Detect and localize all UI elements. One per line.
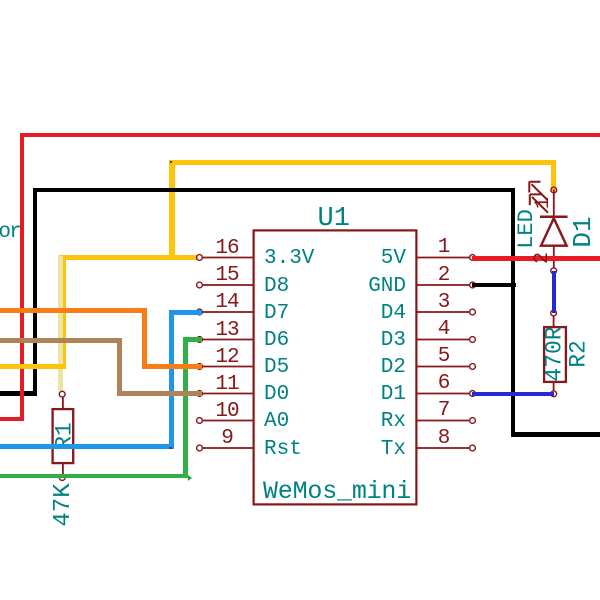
pin number 3 xyxy=(414,292,474,313)
pin name D2 xyxy=(336,357,406,378)
pin 14 circle xyxy=(197,309,203,315)
pin name Rx xyxy=(336,411,406,432)
wire blue D7 horizontal xyxy=(0,444,174,449)
label D1 rotated xyxy=(570,216,596,247)
label WeMos_mini xyxy=(263,479,411,504)
pin 12 stub xyxy=(201,366,254,368)
resistor R2 bottom pin xyxy=(553,382,555,391)
wire green D6 vertical xyxy=(183,337,188,478)
pin 13 stub xyxy=(201,339,254,341)
pin 5 circle xyxy=(470,364,476,370)
pin number 14 xyxy=(197,292,257,313)
resistor R2 box xyxy=(544,327,566,382)
LED D1 top pin circle xyxy=(551,187,557,193)
partial net label "or" xyxy=(0,222,20,243)
pin 4 stub xyxy=(418,339,472,341)
corner dot blue junction xyxy=(169,447,172,450)
wire GND black top horizontal xyxy=(33,188,514,192)
pin number 10 xyxy=(197,401,257,422)
pin 15 circle xyxy=(197,282,203,288)
wire brown D0 pin11 stub xyxy=(117,391,202,396)
wire orange D5 pin12 stub xyxy=(142,364,202,369)
pin 15 stub xyxy=(201,284,254,286)
wire 5V red left exit horizontal xyxy=(0,417,24,422)
pin 13 circle xyxy=(197,337,203,343)
wire pale yellow to R1 top xyxy=(58,256,63,391)
wire green D6 horizontal xyxy=(0,474,188,479)
pin number 9 xyxy=(197,428,257,449)
pin number 6 xyxy=(414,373,474,394)
pin 1 stub xyxy=(418,257,472,259)
pin number 1 xyxy=(414,237,474,258)
pin name A0 xyxy=(264,411,289,432)
wire GND pin2 stub black xyxy=(472,283,516,287)
op-amp U1 body box xyxy=(254,230,417,504)
pin name D6 xyxy=(264,330,289,351)
wire 5V red pin1 horizontal xyxy=(472,256,600,261)
label R2 rotated xyxy=(568,340,591,368)
pin 5 stub xyxy=(418,366,472,368)
pin 16 circle xyxy=(197,255,203,261)
pin 9 circle xyxy=(197,445,203,451)
wire dark blue LED to R2 vertical xyxy=(552,271,556,313)
LED pin number 2 rotated xyxy=(533,251,553,263)
pin 12 circle xyxy=(197,364,203,370)
pin 6 circle xyxy=(470,391,476,397)
pin name 5V xyxy=(336,248,406,269)
pin name D4 xyxy=(336,303,406,324)
wire 3.3V gold horizontal to pin16 xyxy=(59,255,202,261)
label U1 xyxy=(318,206,350,233)
wire green D6 pin13 stub xyxy=(183,337,202,342)
wire 5V red left vertical xyxy=(20,133,25,422)
value 47K rotated xyxy=(52,483,76,526)
pin name D3 xyxy=(336,330,406,351)
LED D1 bottom pin xyxy=(553,246,555,268)
wire brown D0 horizontal xyxy=(0,338,122,343)
pin 10 stub xyxy=(201,420,254,422)
pin 4 circle xyxy=(470,337,476,343)
LED D1 cathode bar xyxy=(540,215,568,218)
pin 8 circle xyxy=(470,445,476,451)
pin number 4 xyxy=(414,319,474,340)
LED D1 arrow 2 xyxy=(530,194,548,213)
pin 11 circle xyxy=(197,391,203,397)
pin name Rst xyxy=(264,439,302,460)
wire brown D0 vertical xyxy=(117,338,122,397)
pin name Tx xyxy=(336,439,406,460)
pin name D0 xyxy=(264,384,289,405)
wire GND black right vertical xyxy=(511,188,515,437)
wire GND black bottom horizontal xyxy=(511,432,600,437)
resistor R1 top pin xyxy=(62,397,64,409)
wire 5V red top horizontal xyxy=(20,133,600,138)
resistor R1 box xyxy=(53,409,74,463)
wire orange D5 vertical xyxy=(142,308,147,369)
wire GND black left vertical xyxy=(33,188,37,396)
pin number 8 xyxy=(414,428,474,449)
pin name GND xyxy=(336,276,406,297)
pin 2 circle xyxy=(470,282,476,288)
pin number 7 xyxy=(414,400,474,421)
wire orange D5 horizontal xyxy=(0,308,147,313)
wire green D6 corner end marker xyxy=(188,475,192,481)
value LED rotated xyxy=(516,209,538,249)
LED D1 top pin xyxy=(553,190,555,217)
LED D1 bottom pin circle xyxy=(551,268,557,274)
pin name 3.3V xyxy=(264,248,314,269)
resistor R2 bottom pin circle xyxy=(551,391,557,397)
pin name D5 xyxy=(264,357,289,378)
pin 3 circle xyxy=(470,309,476,315)
pin number 12 xyxy=(197,347,257,368)
value 470R rotated xyxy=(544,326,567,381)
wire 3.3V gold vertical x172 xyxy=(169,160,175,260)
label R1 rotated xyxy=(53,422,76,450)
pin 2 stub xyxy=(418,284,472,286)
resistor R2 top pin xyxy=(553,316,555,327)
pin 14 stub xyxy=(201,311,254,313)
pin 16 stub xyxy=(201,257,254,259)
wire GND black left exit horizontal xyxy=(0,391,37,395)
pin number 5 xyxy=(414,346,474,367)
pin number 13 xyxy=(197,320,257,341)
wire gold vertical x63 xyxy=(61,255,66,369)
wire gold left exit horizontal y366 xyxy=(0,364,66,369)
wire gold drop to LED anode xyxy=(551,160,556,191)
pin name D7 xyxy=(264,303,289,324)
pin 3 stub xyxy=(418,311,472,313)
pin 1 circle xyxy=(470,255,476,261)
wire 3.3V gold top horizontal y162 xyxy=(169,160,556,165)
pin 7 circle xyxy=(470,418,476,424)
pin name D1 xyxy=(336,384,406,405)
pin 11 stub xyxy=(201,393,254,395)
resistor R2 top pin circle xyxy=(551,310,557,316)
pin 8 stub xyxy=(418,447,472,449)
resistor R1 bottom pin circle xyxy=(59,475,65,481)
wire blue D7 vertical xyxy=(169,310,174,450)
LED D1 triangle xyxy=(541,218,567,246)
pin number 15 xyxy=(197,265,257,286)
LED D1 arrow 1 xyxy=(529,182,547,201)
pin 9 stub xyxy=(201,447,254,449)
pin number 2 xyxy=(414,265,474,286)
wire blue D7 pin14 stub xyxy=(169,310,202,315)
pin 10 circle xyxy=(197,418,203,424)
LED pin number 1 rotated xyxy=(534,197,554,209)
corner dot gold junction xyxy=(170,161,173,164)
pin number 16 xyxy=(197,238,257,259)
pin 7 stub xyxy=(418,420,472,422)
pin number 11 xyxy=(197,374,257,395)
pin name D8 xyxy=(264,276,289,297)
pin 6 stub xyxy=(418,393,472,395)
resistor R1 top pin circle xyxy=(59,391,65,397)
wire dark blue D1 pin6 horizontal xyxy=(472,392,554,396)
resistor R1 bottom pin xyxy=(62,464,64,476)
